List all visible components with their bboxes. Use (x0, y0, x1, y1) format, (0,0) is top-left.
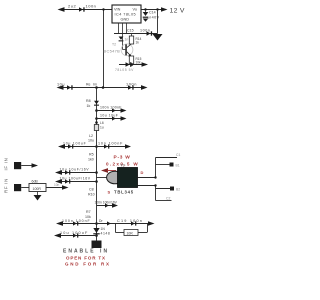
capacitor 10u rail left (57, 83, 73, 90)
capacitor 100uF branch left (58, 142, 97, 149)
node RC parallel left (115, 224, 117, 233)
wire GND rail (114, 33, 158, 35)
wire stub B1 (156, 164, 170, 166)
svg-text:4148: 4148 (101, 232, 111, 236)
svg-text:1n: 1n (125, 38, 129, 42)
capacitor 1n bypass (119, 37, 129, 42)
wire regulator output (141, 9, 162, 11)
node 12V rail tap (156, 8, 158, 10)
node enable junction (95, 222, 98, 225)
resistor R8 1k label (86, 99, 91, 108)
svg-text:R10: R10 (88, 192, 95, 196)
svg-text:1k: 1k (136, 41, 140, 45)
svg-text:L6: L6 (100, 121, 104, 125)
svg-text:10u 10uF: 10u 10uF (100, 114, 118, 118)
svg-text:C19 100n: C19 100n (117, 219, 143, 223)
wire 12V feed top-left (58, 7, 113, 12)
svg-text:10n: 10n (54, 183, 60, 187)
wire drain stair vertical (155, 158, 157, 178)
wire attenuator out (46, 183, 69, 190)
svg-text:D: D (141, 170, 144, 175)
svg-text:10n 100nF: 10n 100nF (98, 142, 123, 146)
svg-text:6dB: 6dB (32, 180, 39, 184)
svg-text:100n 100nF: 100n 100nF (100, 106, 122, 110)
svg-text:100n: 100n (86, 4, 97, 9)
pin 1 IC4 (118, 23, 120, 34)
inductor L2 label (88, 134, 94, 143)
svg-text:1u: 1u (100, 126, 104, 130)
node branch C9 (95, 109, 98, 112)
svg-text:OPEN FOR TX: OPEN FOR TX (66, 255, 106, 260)
svg-text:Vo: Vo (133, 8, 137, 12)
svg-text:78L05 5V: 78L05 5V (115, 68, 134, 72)
wire stub C1 top (156, 157, 178, 159)
wire PA gate lead (97, 177, 109, 179)
svg-text:GND: GND (121, 18, 130, 22)
svg-text:12 V: 12 V (170, 7, 185, 14)
node regulator feed junction (102, 86, 105, 89)
node branch C10 (95, 117, 98, 120)
wire stub B2 (156, 188, 173, 190)
svg-text:VIN: VIN (114, 8, 121, 12)
svg-text:C15: C15 (127, 29, 134, 33)
svg-text:C14: C14 (149, 11, 156, 15)
voltage regulator IC4 78L05 (112, 5, 141, 23)
svg-text:10u 10uF/16V: 10u 10uF/16V (60, 168, 90, 172)
transistor T2 BC547B (104, 43, 133, 57)
capacitor 10uF/16V branch (55, 168, 97, 175)
node branch 100uF16V (95, 180, 98, 183)
svg-text:R8: R8 (86, 99, 91, 103)
node source stair (154, 184, 156, 186)
svg-text:C1: C1 (176, 153, 180, 157)
node B1 terminal (170, 163, 180, 168)
capacitor 100uF/16V branch (55, 177, 97, 184)
wire main vertical bus (96, 88, 98, 241)
svg-text:100n: 100n (140, 29, 150, 33)
wire PA drain lead (138, 177, 156, 179)
svg-text:Re: Re (86, 82, 91, 86)
capacitor C10 10uF branch (97, 114, 127, 121)
svg-text:S: S (108, 190, 111, 195)
net +12 V (161, 7, 185, 14)
connector K5 enable pad (92, 241, 102, 249)
node enable low junction (95, 234, 98, 237)
svg-text:100R: 100R (33, 187, 42, 191)
capacitor C9 100nF branch (97, 106, 127, 113)
pin 3 IC4 (126, 23, 128, 34)
wire VIN drop (103, 10, 105, 88)
resistor R15 10k (129, 56, 141, 65)
capacitor C8 label (88, 188, 95, 197)
svg-text:10u 100uF: 10u 100uF (63, 142, 87, 146)
svg-text:RF IN: RF IN (4, 178, 9, 193)
node B2 terminal (170, 187, 180, 192)
svg-text:10u: 10u (88, 139, 94, 143)
svg-text:1k0: 1k0 (88, 157, 94, 161)
svg-text:B2: B2 (176, 188, 180, 192)
svg-text:GND FOR RX: GND FOR RX (65, 262, 111, 267)
resistor R7 10k label (85, 210, 91, 219)
svg-text:100n 100n/16V: 100n 100n/16V (95, 201, 118, 205)
svg-text:1k: 1k (87, 104, 91, 108)
wire enable out arrow (148, 221, 155, 226)
node branch pair junction (95, 145, 98, 148)
diode D2 1N4148 (93, 227, 110, 236)
inductor L6 bead (94, 121, 104, 131)
capacitor 100uF enable branch (54, 231, 97, 238)
svg-text:BC547B: BC547B (104, 49, 121, 54)
svg-text:T2: T2 (112, 43, 116, 47)
svg-text:100n 100nF: 100n 100nF (62, 219, 91, 223)
svg-text:B1: B1 (176, 164, 180, 168)
pin 2 IC4 (122, 23, 124, 34)
svg-text:1N: 1N (101, 227, 106, 231)
svg-text:2u2: 2u2 (68, 4, 76, 9)
svg-text:10R: 10R (127, 231, 134, 235)
svg-text:L2: L2 (89, 134, 93, 138)
wire +5V out (115, 62, 148, 72)
capacitor C14 1u/40V (143, 10, 160, 22)
wire PA source lead (138, 185, 156, 187)
capacitor 100nF enable branch (56, 219, 97, 226)
connector K3 RF IN (14, 184, 29, 191)
svg-text:P-3 W: P-3 W (114, 155, 131, 161)
svg-text:C8: C8 (89, 188, 94, 192)
svg-text:10u 100uF/16V: 10u 100uF/16V (60, 177, 91, 181)
svg-text:IF IN: IF IN (4, 157, 9, 170)
connector K2 IF IN (14, 162, 38, 169)
node C14 tap (144, 8, 146, 10)
svg-text:C2: C2 (166, 197, 170, 201)
svg-text:Im: Im (93, 82, 97, 86)
wire stub C2 bottom (156, 200, 172, 202)
capacitor 100n rail right (126, 82, 137, 90)
node drain stair (154, 176, 156, 178)
svg-text:TBL345: TBL345 (114, 190, 134, 195)
svg-text:R7: R7 (86, 210, 91, 214)
svg-text:10u 100uF: 10u 100uF (60, 231, 89, 235)
transistor T3 package (107, 168, 138, 188)
ground (153, 34, 163, 41)
capacitor C19 100n (116, 219, 148, 226)
resistor R5 1k0 label (88, 153, 94, 162)
svg-text:100n: 100n (126, 82, 137, 87)
svg-text:ENABLE IN: ENABLE IN (63, 249, 109, 255)
annotation gate arrow red (101, 168, 116, 173)
wire main 12V bus horizontal (57, 85, 148, 90)
capacitor 100nF branch right (97, 142, 132, 149)
ground attenuator (34, 192, 42, 201)
capacitor C16 100nF branch (95, 201, 119, 208)
node branch 10uF16V (95, 171, 98, 174)
svg-text:IC4 78L05: IC4 78L05 (115, 13, 137, 17)
inductor Dr choke (97, 219, 116, 226)
wire source stair vertical (155, 186, 157, 201)
capacitor C15 100n (127, 29, 152, 36)
wire 12V to ground cap (157, 10, 159, 34)
wire base lead T2 (123, 34, 126, 50)
node bead junction (95, 121, 98, 124)
node VIN junction (102, 8, 104, 10)
node bus top junction (95, 86, 98, 89)
svg-text:R5: R5 (89, 153, 94, 157)
svg-text:T3: T3 (121, 164, 125, 168)
resistor 10R parallel (116, 224, 148, 236)
attenuator pad 6dB (29, 180, 46, 192)
capacitor C13 100n (79, 4, 96, 12)
inductor bead on bus (94, 101, 99, 106)
resistor R14 1k (129, 34, 141, 45)
svg-text:10k: 10k (136, 61, 142, 65)
svg-text:10u: 10u (57, 83, 65, 87)
